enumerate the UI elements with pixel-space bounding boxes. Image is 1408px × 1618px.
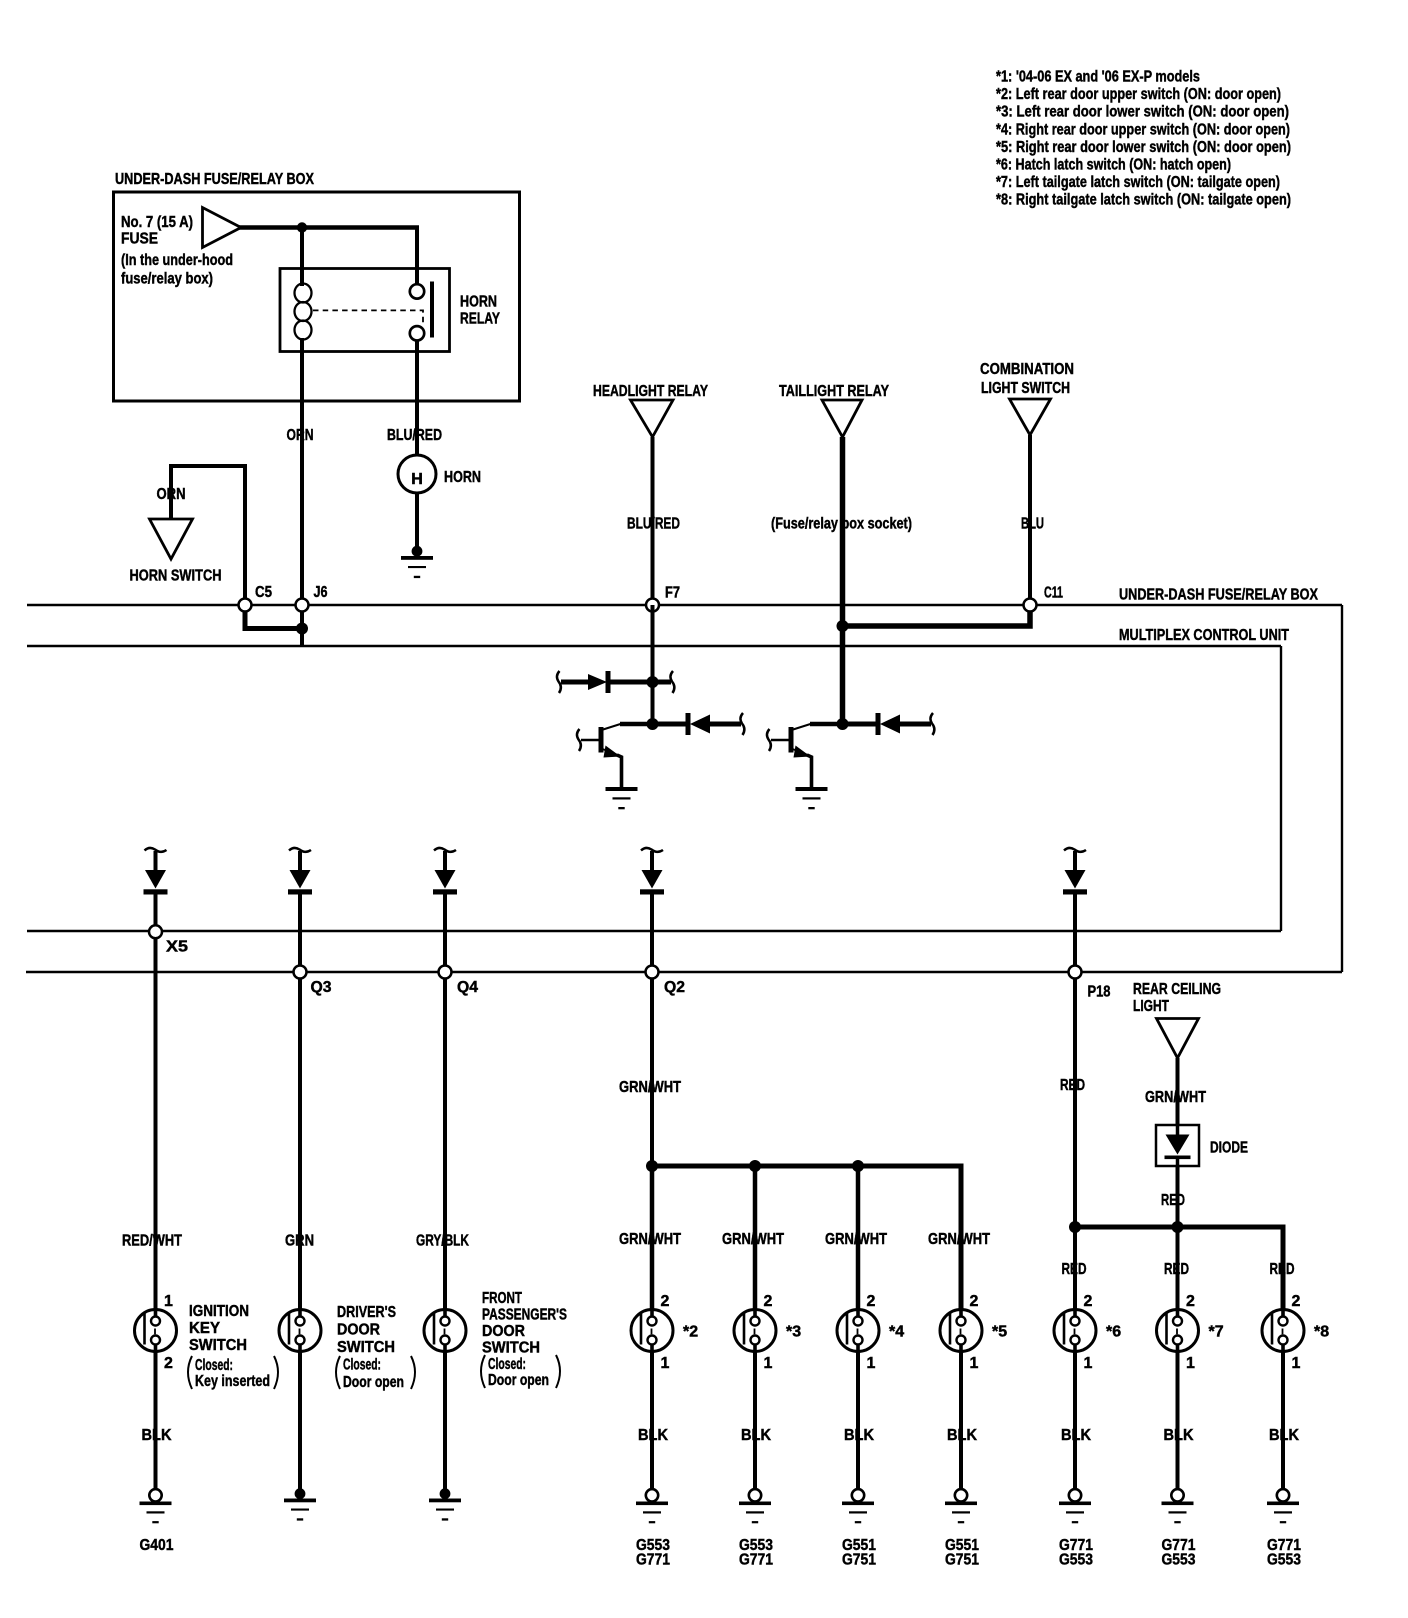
ground driver's door switch: [284, 1488, 316, 1520]
ground right rear door upper switch *4: [842, 1489, 874, 1523]
svg-text:LIGHT: LIGHT: [1133, 998, 1169, 1015]
svg-text:Closed:: Closed:: [343, 1357, 381, 1374]
svg-text:*1: '04-06 EX and '06 EX-P mod: *1: '04-06 EX and '06 EX-P models: [996, 69, 1200, 86]
svg-text:SWITCH: SWITCH: [482, 1340, 540, 1357]
connector pin bracket above diode D2: [289, 848, 311, 852]
svg-text:FRONT: FRONT: [482, 1290, 522, 1307]
svg-text:*8: *8: [1314, 1324, 1329, 1341]
svg-text:MULTIPLEX CONTROL UNIT: MULTIPLEX CONTROL UNIT: [1119, 627, 1289, 644]
svg-text:IGNITION: IGNITION: [189, 1303, 249, 1320]
ground right tailgate latch switch *8: [1267, 1489, 1299, 1523]
svg-text:HORN: HORN: [460, 294, 497, 311]
connector C5: [239, 599, 252, 612]
svg-text:RED: RED: [1062, 1261, 1087, 1278]
diode D1 ignition sense: [144, 851, 168, 895]
connector pin bracket diode CR2 right: [740, 713, 744, 735]
svg-text:COMBINATION: COMBINATION: [980, 361, 1074, 378]
svg-text:RED: RED: [1164, 1261, 1189, 1278]
junction taillight/C11: [837, 620, 849, 632]
wire X5 to ignition key switch: [154, 938, 158, 1310]
junction bus at switch 3 column: [749, 1160, 761, 1172]
svg-text:BLK: BLK: [142, 1427, 172, 1444]
ground left rear door upper switch *2: [636, 1489, 668, 1523]
junction bus at switch 4 column: [852, 1160, 864, 1172]
svg-text:G401: G401: [140, 1537, 174, 1554]
horn switch symbol: [150, 519, 193, 559]
junction bus at Q2 column: [646, 1160, 658, 1172]
svg-text:1: 1: [867, 1355, 876, 1372]
svg-text:DOOR: DOOR: [337, 1322, 380, 1339]
wire driver's door switch to ground: [298, 1351, 302, 1491]
junction C5/J6 jog: [296, 623, 308, 635]
svg-text:2: 2: [1186, 1293, 1195, 1310]
diode CR3 horizontal cathode-left: [843, 713, 932, 735]
wire left rear door upper switch *2 to ground: [650, 1351, 654, 1490]
svg-text:*5: Right rear door lower swit: *5: Right rear door lower switch (ON: do…: [996, 139, 1291, 156]
svg-text:2: 2: [1292, 1293, 1301, 1310]
connector pin bracket above diode D3: [434, 848, 456, 852]
horn relay contact circles: [410, 284, 424, 298]
wire diode D2 to Q3: [298, 894, 302, 972]
connector Q3: [294, 966, 307, 979]
svg-text:G553: G553: [1059, 1552, 1093, 1569]
svg-text:G771: G771: [739, 1552, 773, 1569]
horn relay contact bar: [430, 282, 434, 338]
ground left rear door lower switch *3: [739, 1489, 771, 1523]
svg-text:*4: *4: [889, 1324, 904, 1341]
wire BLU/RED headlight relay to F7: [651, 437, 655, 605]
under-dash fuse/relay box right edge: [1341, 605, 1343, 972]
transistor Q1 collector junction: [647, 718, 659, 730]
svg-text:1: 1: [164, 1293, 173, 1310]
svg-text:DRIVER'S: DRIVER'S: [337, 1304, 396, 1321]
wire taillight relay to transistor Q2b: [840, 437, 846, 724]
wire ORN J6 to multiplex unit: [300, 605, 304, 646]
svg-text:*5: *5: [992, 1324, 1007, 1341]
svg-text:Door open: Door open: [488, 1372, 549, 1389]
svg-text:2: 2: [661, 1293, 670, 1310]
ground left tailgate latch switch *7: [1162, 1489, 1194, 1523]
diode D5 hatch sense: [1063, 851, 1087, 895]
svg-text:G553: G553: [1267, 1552, 1301, 1569]
wire GRN/WHT bus: [652, 1166, 961, 1310]
svg-text:G751: G751: [945, 1552, 979, 1569]
connector C11: [1024, 599, 1037, 612]
switch left rear door lower switch *3: [734, 1310, 776, 1352]
svg-text:GRN/WHT: GRN/WHT: [928, 1231, 990, 1248]
wire BLU/RED fuse feed to relay contact: [415, 228, 419, 286]
svg-text:2: 2: [764, 1293, 773, 1310]
wire ORN fuse to relay coil: [300, 228, 304, 287]
switch left rear door upper switch *2: [631, 1310, 673, 1352]
diode D3 passenger door sense: [433, 851, 457, 895]
switch driver's door switch: [279, 1310, 321, 1352]
svg-text:FUSE: FUSE: [121, 231, 158, 248]
svg-text:ORN: ORN: [157, 486, 186, 503]
svg-text:G751: G751: [842, 1552, 876, 1569]
svg-text:ORN: ORN: [287, 427, 314, 444]
connector pin bracket Q2b base: [767, 729, 771, 751]
connector pin bracket above diode D5: [1064, 848, 1086, 852]
connector Q2: [646, 966, 659, 979]
wire taillight to C11 link: [843, 605, 1031, 626]
under-dash fuse/relay box outline: [114, 192, 520, 401]
svg-text:DOOR: DOOR: [482, 1323, 525, 1340]
svg-text:BLK: BLK: [1164, 1427, 1194, 1444]
svg-text:BLU/RED: BLU/RED: [627, 516, 680, 533]
wire ignition key switch to ground: [154, 1351, 158, 1490]
rear ceiling light symbol: [1157, 1019, 1199, 1059]
diode D2 driver door sense: [288, 851, 312, 895]
svg-text:*4: Right rear door upper swit: *4: Right rear door upper switch (ON: do…: [996, 121, 1290, 138]
svg-text:BLK: BLK: [1061, 1427, 1091, 1444]
diode CR2 horizontal cathode-left: [653, 713, 742, 735]
wire diode D1 to X5: [154, 894, 158, 932]
connector pin bracket Q1 base: [577, 729, 581, 751]
wire diode D4 to Q2: [650, 894, 654, 972]
svg-text:*6: Hatch latch switch (ON: ha: *6: Hatch latch switch (ON: hatch open): [996, 157, 1231, 174]
multiplex control unit lower boundary line: [27, 930, 1281, 932]
wire ORN relay coil to J6: [300, 338, 304, 605]
svg-text:Key inserted: Key inserted: [195, 1373, 270, 1390]
svg-text:Closed:: Closed:: [488, 1356, 526, 1373]
svg-text:KEY: KEY: [189, 1320, 220, 1337]
svg-text:GRN: GRN: [285, 1233, 314, 1250]
svg-text:1: 1: [1084, 1355, 1093, 1372]
svg-text:C11: C11: [1044, 585, 1063, 602]
svg-text:F7: F7: [665, 585, 680, 602]
svg-text:*8: Right tailgate latch switc: *8: Right tailgate latch switch (ON: tai…: [996, 192, 1291, 209]
svg-text:1: 1: [970, 1355, 979, 1372]
ground front passenger's door switch: [429, 1488, 461, 1520]
svg-text:LIGHT SWITCH: LIGHT SWITCH: [981, 380, 1070, 397]
connector Q4: [439, 966, 452, 979]
svg-text:HEADLIGHT RELAY: HEADLIGHT RELAY: [593, 383, 708, 400]
switch right rear door upper switch *4: [837, 1310, 879, 1352]
wire horn switch to C5: [171, 466, 245, 600]
svg-text:J6: J6: [314, 584, 328, 601]
wire BLU/RED relay contact to horn: [415, 340, 419, 456]
svg-text:G553: G553: [1162, 1552, 1196, 1569]
taillight relay symbol: [822, 400, 862, 437]
connector pin bracket diode CR3 right: [930, 713, 934, 735]
wire bus drop to switch 3: [753, 1166, 758, 1310]
svg-text:RED: RED: [1161, 1192, 1185, 1209]
wire left tailgate latch switch *7 to ground: [1176, 1351, 1180, 1490]
svg-text:2: 2: [1084, 1293, 1093, 1310]
connector X5: [149, 925, 162, 938]
svg-text:Closed:: Closed:: [195, 1357, 233, 1374]
under-dash fuse/relay box lower boundary line: [26, 971, 1342, 973]
wire front passenger's door switch to ground: [443, 1351, 447, 1491]
svg-text:*7: Left tailgate latch switch: *7: Left tailgate latch switch (ON: tail…: [996, 174, 1280, 191]
svg-text:Q3: Q3: [311, 979, 332, 996]
wire diode D5 to P18: [1073, 894, 1077, 972]
junction diode CR1 / headlight line: [647, 676, 659, 688]
svg-text:(In the under-hood: (In the under-hood: [121, 252, 233, 269]
junction fuse feed / ORN: [297, 222, 307, 232]
wire right tailgate latch switch *8 to ground: [1281, 1351, 1285, 1490]
svg-text:1: 1: [1186, 1355, 1195, 1372]
svg-text:H: H: [411, 471, 423, 488]
wire diode D6 to bus: [1176, 1166, 1180, 1227]
wire C5 to junction jog: [245, 608, 302, 629]
under-dash fuse/relay box upper boundary line: [27, 604, 1342, 606]
svg-text:*3: *3: [786, 1324, 801, 1341]
svg-text:*3: Left rear door lower switc: *3: Left rear door lower switch (ON: doo…: [996, 104, 1289, 121]
switch right tailgate latch switch *8: [1262, 1310, 1304, 1352]
svg-text:GRY/BLK: GRY/BLK: [416, 1233, 469, 1250]
wire bus drop to switch 4: [856, 1166, 861, 1310]
svg-text:No. 7 (15 A): No. 7 (15 A): [121, 214, 193, 231]
svg-text:SWITCH: SWITCH: [189, 1337, 247, 1354]
svg-text:UNDER-DASH FUSE/RELAY BOX: UNDER-DASH FUSE/RELAY BOX: [115, 171, 314, 188]
wire left rear door lower switch *3 to ground: [753, 1351, 757, 1490]
svg-text:RED/WHT: RED/WHT: [122, 1233, 182, 1250]
svg-text:HORN: HORN: [444, 469, 481, 486]
svg-text:BLK: BLK: [947, 1427, 977, 1444]
svg-text:GRN/WHT: GRN/WHT: [1145, 1089, 1206, 1106]
wire BLU combination switch to C11: [1028, 435, 1032, 605]
multiplex control unit upper boundary line: [27, 645, 1281, 647]
svg-text:BLU: BLU: [1021, 516, 1044, 533]
connector pin bracket above diode D1: [145, 848, 167, 852]
svg-text:1: 1: [764, 1355, 773, 1372]
wire diode D3 to Q4: [443, 894, 447, 972]
horn relay coil: [295, 284, 312, 303]
svg-text:GRN/WHT: GRN/WHT: [722, 1231, 784, 1248]
junction RED bus at diode column: [1172, 1221, 1184, 1233]
fuse No.7 (15 A) symbol: [203, 208, 242, 248]
switch ignition key switch: [135, 1310, 177, 1352]
ground right rear door lower switch *5: [945, 1489, 977, 1523]
svg-text:P18: P18: [1088, 984, 1111, 1001]
switch left tailgate latch switch *7: [1157, 1310, 1199, 1352]
connector F7: [646, 599, 659, 612]
svg-text:RELAY: RELAY: [460, 311, 500, 328]
svg-text:GRN/WHT: GRN/WHT: [619, 1231, 681, 1248]
connector pin bracket above diode D4: [641, 848, 663, 852]
connector pin bracket diode CR1 right: [670, 671, 674, 693]
svg-text:BLK: BLK: [741, 1427, 771, 1444]
svg-text:REAR CEILING: REAR CEILING: [1133, 981, 1221, 998]
horn relay box: [280, 269, 450, 352]
wire Q4 to passenger door switch: [443, 978, 447, 1310]
diode D4 rear door sense: [640, 851, 664, 895]
svg-text:SWITCH: SWITCH: [337, 1339, 395, 1356]
ground ignition key switch: [140, 1489, 172, 1523]
switch right rear door lower switch *5: [940, 1310, 982, 1352]
svg-text:UNDER-DASH FUSE/RELAY BOX: UNDER-DASH FUSE/RELAY BOX: [1119, 587, 1318, 604]
svg-text:HORN SWITCH: HORN SWITCH: [130, 568, 222, 585]
svg-text:Door open: Door open: [343, 1374, 404, 1391]
svg-text:*2: *2: [683, 1324, 698, 1341]
wire horn to ground: [415, 493, 419, 548]
svg-text:DIODE: DIODE: [1210, 1140, 1248, 1157]
ground horn: [401, 546, 433, 578]
svg-text:BLU/RED: BLU/RED: [387, 427, 442, 444]
connector pin bracket diode CR1 left: [557, 671, 561, 693]
svg-text:C5: C5: [255, 584, 272, 601]
wire RED bus: [1075, 1227, 1283, 1310]
svg-text:1: 1: [661, 1355, 670, 1372]
multiplex control unit right edge: [1280, 646, 1282, 931]
switch hatch latch switch *6: [1054, 1310, 1096, 1352]
wire P18 column to switch 6: [1073, 1227, 1077, 1310]
wire rear ceiling light to diode: [1176, 1058, 1180, 1125]
svg-text:(Fuse/relay box socket): (Fuse/relay box socket): [771, 516, 912, 533]
wire hatch latch switch *6 to ground: [1073, 1351, 1077, 1490]
junction RED bus at P18 column: [1069, 1221, 1081, 1233]
svg-text:G771: G771: [636, 1552, 670, 1569]
notes legend: [996, 69, 1291, 209]
diode D6 in box: [1156, 1125, 1199, 1166]
svg-text:*7: *7: [1209, 1324, 1224, 1341]
wire F7 down to diode junction: [651, 605, 655, 724]
svg-text:Q4: Q4: [457, 979, 478, 996]
wire right rear door lower switch *5 to ground: [959, 1351, 963, 1490]
transistor Q1: [581, 724, 653, 788]
svg-text:1: 1: [1292, 1355, 1301, 1372]
horn relay actuator dashed link: [313, 310, 423, 326]
wire Q3 to driver door switch: [298, 978, 302, 1310]
svg-text:fuse/relay box): fuse/relay box): [121, 271, 213, 288]
svg-text:2: 2: [867, 1293, 876, 1310]
svg-text:BLK: BLK: [1269, 1427, 1299, 1444]
wire P18 to hatch switch bus: [1073, 978, 1077, 1227]
ground hatch latch switch *6: [1059, 1489, 1091, 1523]
transistor Q2b collector junction: [837, 718, 849, 730]
svg-text:RED: RED: [1060, 1077, 1085, 1094]
connector P18: [1069, 966, 1082, 979]
headlight relay symbol: [631, 400, 674, 437]
svg-text:GRN/WHT: GRN/WHT: [825, 1231, 887, 1248]
wire fuse output feed: [239, 225, 419, 230]
svg-text:BLK: BLK: [844, 1427, 874, 1444]
svg-text:X5: X5: [166, 939, 188, 956]
svg-text:PASSENGER'S: PASSENGER'S: [482, 1307, 567, 1324]
wire bus drop to switch 7: [1176, 1227, 1180, 1310]
wire bus drop to switch 2: [650, 1166, 655, 1310]
wire Q2 to rear door switch bus: [650, 978, 654, 1166]
svg-text:RED: RED: [1270, 1261, 1295, 1278]
svg-text:2: 2: [164, 1355, 173, 1372]
svg-text:BLK: BLK: [638, 1427, 668, 1444]
ground transistor Q1 emitter: [606, 787, 638, 809]
switch front passenger's door switch: [424, 1310, 466, 1352]
svg-text:TAILLIGHT RELAY: TAILLIGHT RELAY: [779, 383, 889, 400]
diode CR1 horizontal: [561, 671, 671, 693]
svg-text:Q2: Q2: [664, 979, 685, 996]
svg-text:*6: *6: [1106, 1324, 1121, 1341]
svg-text:GRN/WHT: GRN/WHT: [619, 1079, 681, 1096]
connector J6: [296, 599, 309, 612]
horn symbol: [398, 455, 436, 493]
transistor Q2b: [771, 724, 843, 788]
wire right rear door upper switch *4 to ground: [856, 1351, 860, 1490]
svg-text:*2: Left rear door upper switc: *2: Left rear door upper switch (ON: doo…: [996, 86, 1281, 103]
combination light switch symbol: [1010, 399, 1051, 435]
svg-text:2: 2: [970, 1293, 979, 1310]
ground transistor Q2b emitter: [796, 787, 828, 809]
